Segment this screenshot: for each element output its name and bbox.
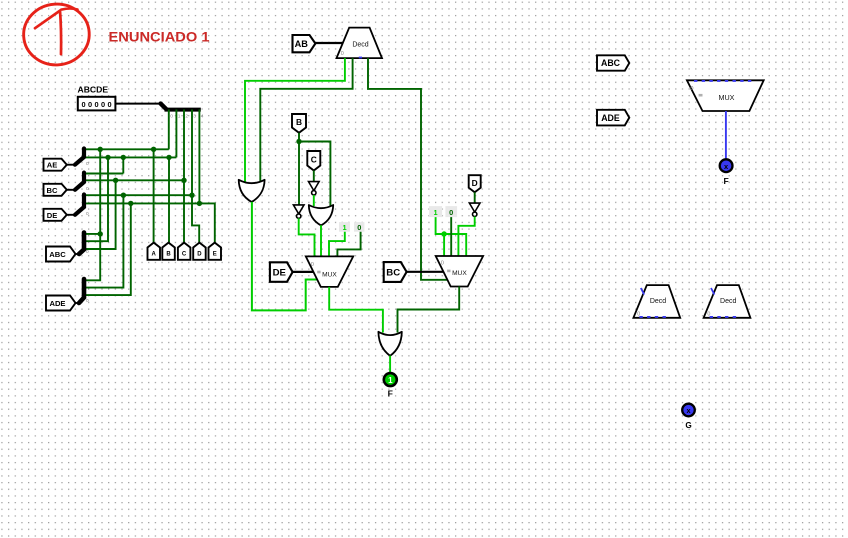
splitter S1 (5-way) spine	[161, 104, 201, 110]
svg-text:B: B	[296, 117, 302, 127]
svg-text:Decd: Decd	[650, 298, 666, 305]
junction bit B / tunnel B feeder	[166, 155, 171, 160]
junction bit E / feeder f6	[128, 201, 133, 206]
output pin G (floating value X)	[682, 404, 695, 417]
wire ABC splitter leg A	[84, 233, 100, 235]
svg-text:00000: 00000	[82, 100, 115, 109]
wire: tunnel ABC to splitter	[76, 253, 81, 255]
wire bus bit E vertical	[198, 110, 200, 204]
svg-text:1: 1	[434, 208, 438, 217]
wire feeder f6 (E to ADE)	[84, 203, 131, 295]
svg-text:MUX: MUX	[322, 271, 337, 278]
or-gate OR2	[309, 205, 333, 225]
wire feeder f7 (A to tunnel A)	[153, 149, 155, 243]
wire: MUX1 output to OR3 left input (value 1)	[329, 287, 383, 333]
svg-text:F: F	[388, 389, 393, 399]
svg-text:0: 0	[170, 114, 173, 120]
splitter S4 (DE)	[75, 195, 84, 215]
wire feeder f3 (C to ABC)	[84, 180, 115, 249]
junction on B wire	[296, 139, 301, 144]
junction bit A / feeder f1	[98, 147, 103, 152]
junction bit E / row r6	[197, 201, 202, 206]
splitter S3 (BC)	[75, 173, 84, 190]
wire feeder f4 (B to BC)	[122, 157, 124, 173]
wire: OR1 output to MUX1 enable (value 1)	[252, 202, 317, 311]
svg-text:0: 0	[86, 211, 89, 217]
junction bit B / feeder f4	[121, 155, 126, 160]
svg-text:B: B	[166, 252, 171, 258]
splitter S6 (ADE)	[79, 279, 84, 303]
svg-text:F: F	[723, 176, 728, 186]
or-gate OR1	[239, 180, 265, 202]
tunnel DE	[44, 209, 67, 221]
wire: tunnel DE to splitter	[67, 214, 76, 216]
junction bit A / tunnel A feeder	[151, 147, 156, 152]
wire: tunnel BC to MUX2 select	[407, 271, 444, 273]
wire: NOT3 output to MUX2 in2 (value 1)	[458, 217, 474, 257]
svg-text:0: 0	[86, 161, 89, 167]
tunnel BC (select source for MUX2)	[384, 262, 407, 282]
tunnel C (bottom)	[178, 243, 191, 260]
tunnel BC	[44, 184, 67, 196]
svg-text:0: 0	[311, 262, 314, 268]
not-gate NOT2 (input C)	[309, 182, 320, 195]
junction on const1 wire	[441, 231, 446, 236]
svg-text:0: 0	[86, 186, 89, 192]
U3 unconnected outputs (blue)	[710, 316, 737, 318]
or-gate OR3	[378, 332, 401, 356]
wire: U1 out0 to OR1 left input (value 1)	[245, 58, 345, 182]
multiplexer MUX1	[306, 256, 353, 287]
wire: branch to MUX2 in0	[443, 234, 445, 256]
svg-text:0: 0	[357, 223, 361, 232]
output pin F (value 1)	[384, 373, 397, 386]
svg-text:C: C	[311, 155, 317, 165]
tunnel C (source, facing down)	[307, 151, 320, 171]
wire: U1 out1 to OR1 right input (value 0)	[260, 58, 352, 182]
junction feeder f1 / ABC leg A	[98, 231, 103, 236]
wire feeder f8 (B to tunnel B)	[168, 157, 170, 243]
wire row r3 (BC splitter leg B)	[84, 173, 123, 175]
junction bit C / feeder f3	[113, 178, 118, 183]
wire: const0 to MUX2 in1 (value 0)	[450, 217, 452, 256]
tunnel AB	[293, 35, 316, 52]
wire feeder f5 (D to ADE)	[84, 195, 123, 287]
wire: OR2 output to MUX1 in1 (value 1)	[320, 225, 322, 257]
wire: OR3 output to pin F (value 1)	[389, 356, 391, 373]
tunnel ADE (right, unconnected)	[597, 110, 629, 126]
svg-text:BC: BC	[47, 186, 58, 195]
red annotation digit 1	[35, 11, 61, 55]
constant 1 (right)	[429, 206, 442, 217]
wire: tunnel DE to MUX1 select	[293, 271, 314, 273]
splitter S5 (ABC)	[79, 233, 84, 255]
wire bus bit D vertical with jog to tunnel D	[192, 110, 199, 244]
wire: tunnel BC to splitter	[67, 189, 76, 191]
svg-text:0: 0	[341, 51, 344, 57]
wire row r5 (bit D)	[84, 194, 192, 196]
wire: const1 to MUX1 in2 (value 1)	[329, 232, 345, 257]
tunnel D (bottom)	[193, 243, 206, 260]
red annotation circle	[22, 2, 92, 67]
wire: NOT1 output to MUX1 in0 (value 1)	[299, 218, 315, 257]
tunnel D (source, facing down)	[469, 175, 481, 192]
wire row r4 (bit C)	[84, 179, 184, 181]
wire: tunnel C to NOT2 (value 0)	[313, 171, 315, 183]
tunnel B (bottom)	[162, 243, 175, 260]
svg-text:0: 0	[449, 208, 453, 217]
wire feeder f1 (A to ABC/ADE)	[84, 149, 100, 280]
wire: MUX2 output to OR3 right input (value 0)	[398, 287, 460, 333]
not-gate NOT3 (input D)	[469, 203, 480, 216]
svg-text:0: 0	[690, 86, 693, 92]
tunnel A (bottom)	[148, 243, 161, 260]
svg-text:BC: BC	[386, 267, 400, 278]
svg-text:0: 0	[441, 261, 444, 267]
wire: pin ABCDE to splitter S1	[115, 103, 160, 105]
wire: branch B to OR2 right input (value 0)	[299, 142, 330, 207]
svg-text:Decd: Decd	[720, 298, 736, 305]
tunnel AE	[44, 159, 67, 171]
multiplexer MUX3 (8-input, unconnected)	[687, 80, 764, 111]
svg-text:MUX: MUX	[719, 93, 735, 102]
wire bus bit C vertical to tunnel C	[183, 110, 185, 244]
wire: U1 out3 to MUX2 enable (value 0)	[368, 58, 448, 280]
constant 0 (right)	[445, 206, 457, 217]
wire row r2 (bit B)	[84, 156, 176, 158]
tunnel E (bottom)	[209, 243, 222, 260]
svg-text:ENUNCIADO 1: ENUNCIADO 1	[109, 29, 210, 44]
tunnel ABC	[46, 247, 76, 262]
junction bit C / row r4	[181, 178, 186, 183]
wire row r6 (bit E) with drop to tunnel E	[84, 203, 215, 243]
wire row r1 (bit A)	[84, 148, 169, 150]
svg-text:1: 1	[178, 114, 181, 120]
junction bit D / feeder f5	[121, 193, 126, 198]
wire bus bit B vertical	[175, 110, 177, 158]
tunnel ABC (right, unconnected)	[597, 55, 629, 70]
junction bit D / row r5	[189, 193, 194, 198]
svg-text:A: A	[152, 252, 157, 258]
splitter S1 bit index labels	[170, 114, 204, 120]
svg-text:0: 0	[86, 249, 89, 255]
svg-text:AE: AE	[47, 161, 58, 170]
svg-text:DE: DE	[273, 268, 287, 279]
wire: tunnel ADE to splitter	[76, 302, 81, 304]
svg-text:1: 1	[388, 376, 393, 385]
wire: NOT2 output to OR2 left input (value 1)	[313, 195, 315, 206]
svg-text:DE: DE	[47, 211, 58, 220]
U3 select stub (blue)	[711, 288, 714, 295]
U2 select stub (blue)	[641, 288, 644, 295]
svg-text:ABC: ABC	[49, 250, 66, 259]
multiplexer MUX2	[436, 256, 483, 287]
decoder U1 (Decd 2-to-4)	[337, 28, 383, 59]
splitter S2 (AE)	[75, 149, 84, 165]
wire bus bit A vertical	[168, 110, 170, 150]
MUX3 unconnected input pins (blue)	[694, 80, 751, 82]
tunnel ADE	[46, 296, 76, 311]
decoder U2 (Decd, unconnected)	[633, 285, 680, 318]
wires: dark-green distribution mesh (value 0)	[84, 110, 215, 296]
svg-text:MUX: MUX	[452, 270, 467, 277]
input pin ABCDE (5-bit, value 00000)	[78, 97, 116, 111]
svg-text:D: D	[197, 252, 202, 258]
svg-text:E: E	[213, 252, 217, 258]
wire: tunnel B down to NOT1 (value 0)	[298, 133, 300, 205]
tunnel B (source, facing down)	[292, 114, 306, 133]
svg-text:3: 3	[193, 114, 196, 120]
constant 1 (left)	[339, 222, 350, 232]
U2 unconnected outputs (blue)	[639, 316, 666, 318]
wire: tunnel AB to decoder U1 select	[315, 42, 344, 44]
svg-text:2: 2	[185, 114, 188, 120]
svg-text:D: D	[472, 178, 478, 188]
not-gate NOT1 (input B)	[293, 205, 304, 218]
wire: tunnel AE to splitter	[67, 164, 76, 166]
svg-text:4: 4	[201, 114, 204, 120]
constant 0 (left)	[354, 222, 364, 232]
svg-text:ADE: ADE	[49, 299, 65, 308]
svg-text:Decd: Decd	[352, 42, 368, 49]
svg-text:ABC: ABC	[601, 58, 621, 68]
svg-text:ADE: ADE	[601, 113, 620, 123]
svg-text:C: C	[182, 252, 187, 258]
wire: const0 to MUX1 in3 (value 0)	[337, 232, 360, 257]
svg-text:G: G	[685, 421, 691, 430]
decoder U3 (Decd, unconnected)	[704, 285, 751, 318]
wire: const1 to MUX2 in0 and in3 (value 1)	[436, 217, 467, 256]
svg-text:ABCDE: ABCDE	[78, 85, 109, 95]
wire feeder f2 (B to ABC)	[84, 157, 108, 241]
junction bit B / feeder f2	[105, 155, 110, 160]
tunnel DE (select source for MUX1)	[270, 262, 293, 282]
wire: MUX3 output to pin F (floating, blue)	[725, 111, 727, 159]
svg-text:AB: AB	[295, 39, 309, 49]
svg-text:1: 1	[343, 223, 347, 232]
output pin F (right, floating value X)	[720, 159, 733, 172]
wire: tunnel D to NOT3 (value 0)	[474, 192, 476, 203]
svg-text:0: 0	[86, 298, 89, 304]
